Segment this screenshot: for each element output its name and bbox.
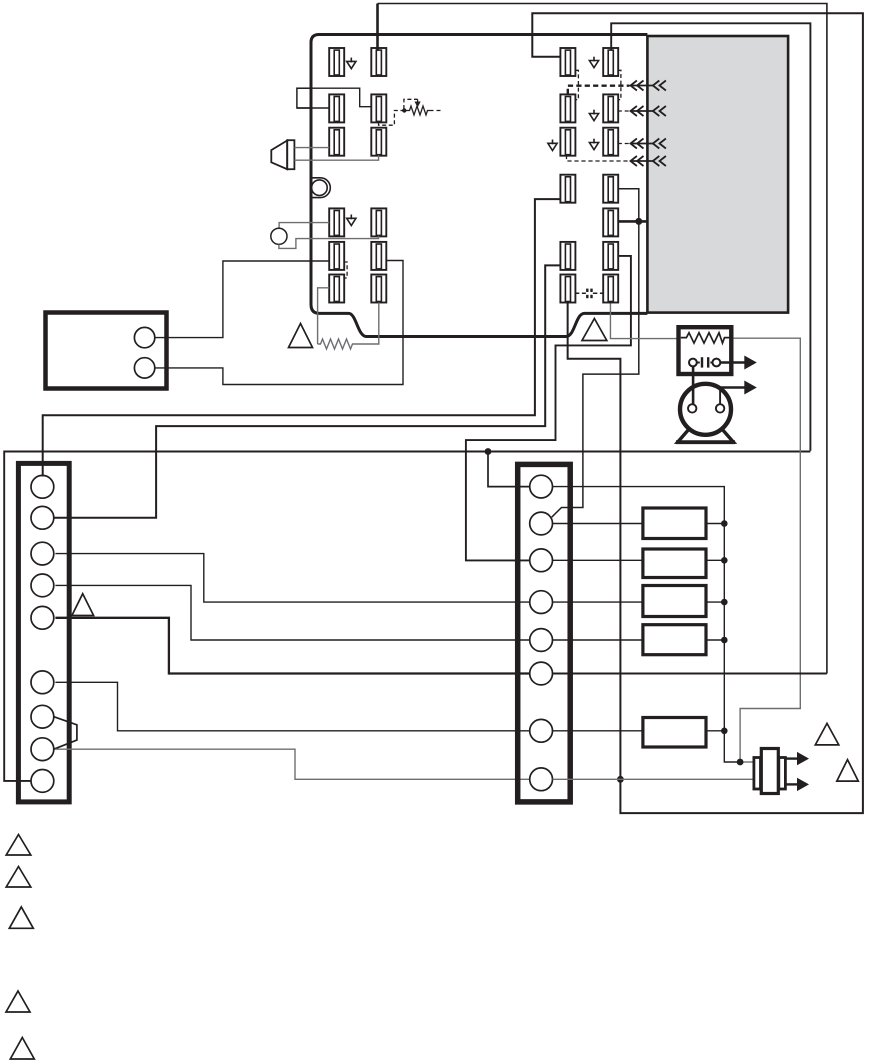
- note triangle 2: [6, 867, 31, 888]
- potentiometer wiper arrow: [417, 99, 419, 103]
- potentiometer wiper box: [404, 99, 418, 109]
- terminal R1-1: [560, 48, 575, 76]
- junction on bottom frame: [617, 776, 624, 783]
- wire relay4 common: [706, 639, 724, 641]
- junction common net: [485, 448, 492, 455]
- edge tab connector: [297, 88, 311, 108]
- wire terminal A-R to junction: [618, 189, 639, 222]
- potentiometer resistor: [404, 106, 429, 115]
- spark gap plates: [701, 357, 703, 367]
- fuse resistor under board: [318, 302, 379, 349]
- wire left c8 to right c8: [55, 749, 529, 779]
- left strip screw 4: [31, 574, 54, 597]
- flag right row3 left: [548, 140, 557, 151]
- wire right c5 to relay4: [553, 639, 643, 641]
- terminal R2-2: [603, 94, 618, 122]
- wire capacitor node to igniter (gray): [733, 338, 800, 762]
- left strip screw 5: [31, 606, 54, 629]
- wire right c2 to relay1: [553, 523, 643, 525]
- left terminal strip: [18, 463, 69, 802]
- terminal R2-1: [560, 94, 575, 122]
- note triangle capacitor 1: [815, 723, 839, 745]
- igniter resistor: [681, 333, 730, 343]
- wire right c6 to top frame: [553, 673, 827, 675]
- right strip screw 7: [530, 719, 553, 742]
- wire horn to L3-2: [294, 155, 378, 160]
- terminal L5-2: [371, 242, 386, 270]
- terminal RD-1: [560, 275, 575, 303]
- right strip screw 8: [530, 768, 553, 791]
- terminal R3-2: [603, 128, 618, 156]
- wire right strip c1 to relay common column: [553, 487, 741, 762]
- wire left c6 to right c7: [55, 682, 529, 731]
- terminal L3-1: [329, 128, 344, 156]
- left strip screw 1: [31, 475, 54, 498]
- wire second top run: [532, 13, 863, 813]
- wire capacitor node to plate: [740, 761, 754, 763]
- chevron plug row1: [631, 81, 666, 91]
- terminal RD-2: [603, 275, 618, 303]
- terminal L6-2: [371, 275, 386, 303]
- spark gap left electrode: [689, 359, 697, 367]
- thermostat terminal C: [134, 358, 154, 378]
- flag right row1: [589, 57, 598, 68]
- wire junction to right strip c2: [552, 221, 639, 517]
- wire relay2 common: [706, 559, 724, 561]
- blower motor: [680, 384, 731, 435]
- terminal L1-1: [329, 48, 344, 76]
- right strip screw 4: [530, 591, 553, 614]
- potentiometer junction: [402, 108, 406, 112]
- wire common horizontal net: [4, 452, 810, 781]
- flag left row1: [347, 58, 356, 69]
- terminal L3-2: [371, 128, 386, 156]
- relay 4: [643, 625, 706, 655]
- terminal RC-2: [603, 242, 618, 270]
- junction capacitor node: [737, 759, 744, 766]
- wire L4-1 to status lamp: [279, 223, 329, 229]
- terminal RB-2: [603, 208, 618, 236]
- dashed harness bus row1: [568, 86, 630, 94]
- terminal R3-1: [560, 128, 575, 156]
- motor lead wire: [719, 388, 721, 405]
- dashed capacitor lead left: [575, 292, 586, 294]
- wire top horizontal run: [378, 4, 827, 674]
- spark gap right electrode: [713, 359, 721, 367]
- run capacitor plate right: [779, 758, 786, 790]
- dashed lead row2: [618, 110, 630, 112]
- wire left c4 to right c5: [55, 585, 529, 640]
- wire terminal C-L to left strip c2: [54, 265, 561, 517]
- wire left c5 to right c6 heat: [55, 618, 529, 674]
- note triangle board right: [582, 319, 607, 341]
- note triangle 4: [6, 991, 30, 1012]
- note triangle board left: [289, 324, 313, 348]
- right strip screw 3: [530, 549, 553, 572]
- terminal RA-1: [560, 175, 575, 203]
- relay 2: [643, 549, 706, 578]
- right strip screw 6: [530, 662, 553, 685]
- wire right c3 to relay2: [553, 559, 643, 561]
- wire third top run: [611, 23, 810, 450]
- wire terminal D-R to igniter resistor (gray): [610, 302, 678, 339]
- cabinet block (gray): [647, 36, 788, 313]
- wire status lamp to L4-2: [279, 236, 379, 249]
- thermostat terminal W: [134, 327, 154, 347]
- terminal L4-1: [329, 208, 344, 236]
- dashed capacitor lead right: [593, 292, 603, 294]
- wire terminal B-R to cabinet: [618, 220, 649, 223]
- note triangle capacitor 2: [837, 760, 859, 782]
- left strip screw 8: [31, 738, 54, 761]
- wire terminal A-L to left strip c1: [43, 199, 561, 476]
- terminal R1-2: [603, 48, 618, 76]
- right strip screw 2: [530, 512, 553, 535]
- note triangle 1: [6, 835, 31, 856]
- terminal L2-1: [329, 94, 344, 122]
- wire right c8 to run capacitor: [553, 778, 754, 780]
- junction igniter control node: [635, 218, 642, 225]
- wire thermostat C to L5-2: [155, 261, 403, 385]
- flag right row2: [589, 110, 598, 121]
- dashed link row1 right col: [618, 70, 621, 99]
- run capacitor plate left: [754, 758, 761, 790]
- terminal L6-1: [329, 275, 344, 303]
- note triangle left strip: [72, 594, 94, 616]
- wire common to right strip c1: [488, 452, 530, 487]
- right strip screw 5: [530, 629, 553, 652]
- relay 5: [643, 718, 706, 748]
- flag right row3 mid: [589, 139, 598, 150]
- terminal L1-2: [371, 48, 386, 76]
- motor terminal left: [688, 404, 696, 412]
- motor stand: [678, 429, 734, 443]
- flag left row4: [347, 215, 356, 226]
- status lamp: [271, 228, 287, 244]
- igniter electrode drop wire: [692, 366, 695, 404]
- wire terminal C-R to right strip c3: [466, 256, 631, 561]
- wire tab to terminal L2-1: [297, 107, 329, 109]
- wire L6-1 to fuse resistor: [318, 288, 330, 344]
- left strip screw 3: [31, 542, 54, 565]
- hot surface igniter box: [679, 327, 732, 374]
- potentiometer dashed lead: [379, 111, 403, 126]
- wire right c4 to relay3: [553, 601, 643, 603]
- right strip screw 1: [530, 475, 553, 498]
- dashed link L5-L6: [344, 262, 347, 278]
- note triangle 5: [10, 1038, 34, 1060]
- chevron plug row2: [631, 106, 666, 116]
- terminal RC-1: [560, 242, 575, 270]
- terminal L2-2: [371, 94, 386, 122]
- igniter line arrow: [720, 361, 746, 364]
- terminal L5-1: [329, 242, 344, 270]
- motor line arrow: [720, 386, 746, 389]
- chevron plug row3: [631, 139, 666, 149]
- left strip screw 6: [31, 671, 54, 694]
- wire relay5 common: [706, 730, 724, 732]
- capacitor plates: [587, 289, 591, 299]
- terminal RA-2: [603, 175, 618, 203]
- left strip screw 9: [31, 770, 54, 793]
- wire thermostat W to L5-1: [155, 261, 329, 338]
- left strip screw 2: [31, 506, 54, 529]
- relay 3: [643, 586, 706, 617]
- chevron plug row4: [631, 156, 666, 166]
- wire left c3 to right c4: [55, 554, 529, 603]
- wire relay3 common: [706, 601, 724, 603]
- wire top net blower-cool: [376, 4, 379, 51]
- dashed lead row3: [618, 143, 630, 145]
- wire tab to terminal L2-2: [297, 88, 371, 107]
- potentiometer dashed lead right: [429, 110, 441, 112]
- left strip screw 7: [31, 705, 54, 728]
- motor terminal right: [716, 404, 724, 412]
- note triangle 3: [9, 907, 33, 928]
- right terminal strip: [518, 464, 571, 802]
- wire right c7 to relay5: [553, 730, 643, 732]
- dashed link row1 left col: [576, 70, 579, 99]
- relay 1: [643, 508, 706, 539]
- igniter horn body: [271, 141, 287, 170]
- capacitor arrow top: [785, 757, 798, 759]
- thermostat box: [46, 313, 167, 389]
- capacitor arrow bottom: [785, 783, 798, 785]
- run capacitor body: [761, 749, 778, 794]
- dashed lead row4: [567, 155, 630, 161]
- wire relay1 common: [706, 523, 724, 525]
- wire horn to L3-1: [294, 147, 329, 149]
- board grommet: [312, 178, 331, 198]
- jumper left strip 7-8: [54, 717, 77, 750]
- terminal L4-2: [371, 208, 386, 236]
- igniter horn bar: [287, 140, 294, 169]
- control board outline: [311, 35, 647, 337]
